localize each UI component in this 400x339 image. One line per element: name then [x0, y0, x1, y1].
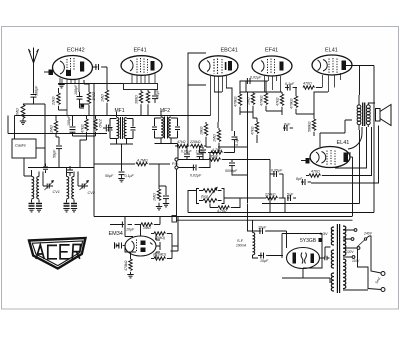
- resistor 35k top: [205, 158, 232, 161]
- svg-text:8μF: 8μF: [296, 177, 303, 181]
- svg-text:(log): (log): [201, 195, 208, 199]
- pins EBC41: [211, 76, 227, 122]
- wire cadre top: [14, 116, 16, 140]
- svg-text:0,02μF: 0,02μF: [250, 76, 262, 80]
- trimmer pad: [81, 104, 85, 108]
- wire el41 anode to ot: [346, 66, 374, 96]
- wire antenna down: [33, 63, 35, 94]
- wire af ties: [159, 185, 166, 187]
- wire ot down1: [359, 130, 361, 204]
- capacitor 10uF em34: [121, 222, 132, 228]
- wire det area: [178, 147, 203, 160]
- resistor 47k osc2: [85, 116, 88, 137]
- svg-text:47kΩ: 47kΩ: [177, 140, 186, 144]
- capacitor padder: [67, 166, 73, 176]
- svg-text:4,7MΩ: 4,7MΩ: [137, 159, 148, 163]
- svg-text:470Ω: 470Ω: [311, 170, 320, 174]
- resistor 220k right: [263, 196, 282, 199]
- wire left col bottom: [24, 168, 95, 177]
- capacitor 0,1uF grid el41: [285, 85, 297, 91]
- resistor 300 ohm: [139, 90, 142, 116]
- svg-text:1MΩ: 1MΩ: [101, 94, 105, 102]
- ground below MF1 cap: [118, 179, 124, 182]
- svg-text:50pF: 50pF: [53, 149, 57, 158]
- svg-text:50μF: 50μF: [105, 174, 114, 178]
- wire ech42 to cap: [93, 67, 108, 90]
- resistor 1M b: [251, 92, 254, 109]
- resistor 0,5M em34: [151, 257, 172, 260]
- trimmer CV2: [78, 181, 88, 190]
- resistor 1M avc: [95, 162, 171, 165]
- svg-text:1MΩ: 1MΩ: [213, 134, 217, 142]
- capacitor 0,1uF below MF1: [119, 144, 125, 178]
- tube 5Y3GB rectifier: [287, 248, 320, 269]
- svg-text:15μF: 15μF: [260, 259, 269, 263]
- capacitor 15uF psu: [258, 253, 270, 259]
- wire ebc41 pins extension: [188, 85, 235, 153]
- svg-text:EL41: EL41: [337, 140, 350, 146]
- terminal PU2: [175, 166, 178, 169]
- wire af column: [232, 160, 283, 213]
- ot wires: [359, 95, 375, 130]
- capacitor interstage between ECH42 EF41: [95, 64, 104, 70]
- svg-text:47kΩ: 47kΩ: [251, 126, 255, 135]
- wire ef41b cluster rails: [240, 81, 282, 118]
- capacitor MF1 left: [108, 119, 113, 139]
- antenna: [29, 48, 39, 64]
- svg-text:EF41: EF41: [134, 48, 147, 54]
- svg-text:5000pF: 5000pF: [225, 169, 238, 173]
- wire em34 tube top: [125, 225, 141, 237]
- wire rect heater: [320, 231, 334, 258]
- svg-text:0,05μF: 0,05μF: [181, 150, 192, 154]
- capacitor 5000pF: [229, 160, 235, 170]
- wire speaker nested corners: [311, 126, 379, 184]
- wire loop around EBC41: [188, 53, 206, 85]
- primary coil: [357, 105, 361, 109]
- wire bus PU down: [177, 153, 248, 217]
- svg-text:22kΩ: 22kΩ: [92, 91, 96, 101]
- svg-text:220kΩ: 220kΩ: [264, 193, 276, 197]
- coil L1a: [32, 177, 40, 199]
- wire mid bus: [8, 133, 107, 135]
- wire MF1 top/bottom: [110, 112, 133, 144]
- svg-text:220kΩ: 220kΩ: [189, 140, 201, 144]
- svg-text:470Ω: 470Ω: [303, 82, 312, 86]
- power transformer winding 2: [331, 250, 334, 268]
- coil MF1 left: [117, 118, 119, 139]
- core: [362, 103, 364, 127]
- core MF2: [164, 117, 166, 139]
- resistor 1k: [146, 90, 149, 116]
- svg-text:470kΩ: 470kΩ: [234, 96, 238, 107]
- svg-text:1MΩ: 1MΩ: [153, 193, 157, 201]
- pins EF41b: [265, 76, 281, 92]
- svg-text:10μF: 10μF: [258, 226, 267, 230]
- wire ef41b outputs: [218, 92, 248, 203]
- resistor 47k mid: [255, 118, 258, 143]
- power transformer secondary winding: [343, 226, 346, 256]
- svg-text:500kΩ: 500kΩ: [308, 121, 312, 132]
- capacitor 8uF cathode: [283, 125, 293, 131]
- resistor 4,7k av: [215, 206, 234, 209]
- resistor 27k osc2: [94, 116, 97, 137]
- svg-text:470kΩ: 470kΩ: [124, 260, 128, 271]
- wire el41b right: [350, 152, 353, 217]
- wire rectifier loop: [282, 234, 368, 291]
- svg-text:EBC41: EBC41: [221, 48, 238, 54]
- svg-text:47kΩ: 47kΩ: [81, 124, 85, 133]
- wire em34 bottom: [125, 246, 136, 257]
- svg-text:5Y3GB: 5Y3GB: [300, 238, 317, 244]
- svg-text:1MΩ: 1MΩ: [143, 226, 151, 230]
- wire heater bus: [270, 212, 374, 214]
- capacitor 130pF det: [197, 146, 203, 160]
- svg-text:P.U.: P.U.: [172, 162, 179, 166]
- svg-text:ECH42: ECH42: [67, 48, 85, 54]
- resistor 470k el41: [294, 93, 297, 114]
- svg-text:470kΩ: 470kΩ: [290, 98, 294, 109]
- wire ground bus: [94, 216, 352, 218]
- svg-text:120V: 120V: [346, 250, 354, 254]
- secondary coil: [366, 105, 370, 109]
- capacitor grid em34: [116, 243, 125, 249]
- tube EM34 magic eye: [125, 236, 156, 256]
- coil L2 bottom parts: [67, 168, 79, 203]
- coil L1 bottom parts: [32, 170, 44, 203]
- power transformer core: [336, 224, 338, 293]
- resistor 500k el41: [312, 115, 315, 136]
- wire coil top bus: [28, 167, 94, 169]
- capacitor on coil bus: [43, 164, 48, 174]
- wire x94 vertical: [93, 84, 95, 217]
- capacitor 10uF psu: [258, 228, 269, 234]
- wire taps to terminals: [358, 236, 382, 290]
- mains terminal 1: [381, 272, 385, 276]
- cathode network box: [124, 84, 158, 90]
- terminal PU1: [175, 158, 178, 161]
- wire cadre bottom: [23, 158, 25, 176]
- svg-text:100mA: 100mA: [236, 244, 246, 248]
- tube EL41: [312, 55, 352, 75]
- svg-text:240V: 240V: [363, 232, 373, 236]
- resistor 470 grid stopper: [303, 86, 322, 89]
- resistor 470k em34: [129, 256, 132, 274]
- grid cap EL41 lower: [301, 158, 310, 164]
- resistor 470k a: [238, 92, 241, 112]
- tube EF41 second: [252, 56, 292, 76]
- svg-text:110V: 110V: [352, 259, 360, 263]
- svg-text:Cadre: Cadre: [15, 143, 27, 148]
- resistor 47k d: [280, 92, 283, 112]
- wire cadre right: [36, 147, 45, 149]
- speaker: [376, 105, 392, 126]
- pins EF41: [132, 73, 155, 84]
- svg-text:4,7kΩ: 4,7kΩ: [212, 148, 222, 152]
- heater pair bus: [177, 213, 353, 221]
- resistor 4,7k: [208, 151, 227, 154]
- svg-text:0,1μF: 0,1μF: [235, 136, 239, 146]
- resistor 1M low: [54, 116, 57, 138]
- tube EF41: [121, 56, 162, 76]
- wire mf2 to det: [177, 144, 180, 148]
- taps: [343, 229, 367, 259]
- wire MF2 top/bottom: [155, 111, 178, 144]
- wire avc bus: [15, 115, 211, 117]
- capacitor 0,02uF pu: [192, 165, 202, 171]
- svg-text:100pF: 100pF: [74, 84, 78, 95]
- resistor under interstage: [105, 90, 108, 116]
- capacitor 0,02uF grid: [246, 78, 268, 84]
- svg-text:EF41: EF41: [265, 48, 278, 54]
- wire sf connections: [248, 204, 287, 259]
- cadre box: [12, 139, 36, 158]
- svg-text:1MΩ: 1MΩ: [50, 125, 54, 133]
- volume control loop: [197, 188, 225, 204]
- resistor 1M vertical af: [157, 164, 160, 206]
- power transformer secondary winding b: [343, 259, 346, 289]
- core MF1: [120, 117, 122, 139]
- svg-text:0,1μF: 0,1μF: [156, 89, 160, 99]
- wire osc mid: [59, 80, 90, 116]
- wire SF top: [252, 220, 254, 232]
- wire volume to grid: [188, 191, 285, 213]
- svg-text:22kΩ: 22kΩ: [52, 96, 56, 106]
- ground em34: [127, 275, 133, 278]
- wire em34 right bracket: [125, 217, 178, 259]
- wire vertical x45: [44, 104, 46, 168]
- detector resistor 220k: [190, 144, 206, 147]
- capacitor 0,1uF osc: [77, 91, 83, 104]
- svg-text:47kΩ: 47kΩ: [276, 97, 280, 106]
- svg-text:0,1μF: 0,1μF: [285, 82, 295, 86]
- wire osc left: [8, 116, 45, 168]
- wire junction: [23, 103, 45, 105]
- svg-text:35pF: 35pF: [210, 155, 219, 159]
- svg-text:10μF: 10μF: [126, 228, 135, 232]
- svg-text:8μF: 8μF: [284, 123, 291, 127]
- wire psu bottom: [160, 217, 178, 252]
- choke S.F: [253, 233, 255, 255]
- ground: [20, 121, 26, 124]
- resistor 2M em34: [151, 232, 172, 235]
- power transformer winding 3: [331, 273, 334, 291]
- capacitor 15pF: [200, 147, 206, 156]
- capacitor 0,1uF: [232, 131, 238, 144]
- capacitor 0,05uF right: [270, 171, 283, 177]
- resistor 470k c: [264, 92, 267, 111]
- resistor 470 lower: [306, 174, 330, 177]
- capacitor af: [163, 186, 169, 203]
- svg-text:EL41: EL41: [325, 48, 338, 54]
- svg-text:S.F: S.F: [237, 238, 244, 243]
- capacitor MF1 right: [131, 119, 136, 139]
- pins EL41: [323, 73, 341, 92]
- resistor 1M diag: [217, 128, 220, 147]
- coil MF2 left: [161, 117, 163, 138]
- mains terminal 2: [381, 288, 385, 292]
- svg-text:0,02μF: 0,02μF: [190, 174, 202, 178]
- trimmer CV1: [43, 181, 53, 190]
- svg-text:100pF: 100pF: [67, 115, 71, 126]
- capacitor 0,1uF: [152, 90, 158, 103]
- svg-text:CV1: CV1: [53, 190, 60, 194]
- wire osc bottom: [56, 136, 96, 168]
- capacitor right pair: [103, 125, 112, 132]
- svg-text:(0,5MΩ): (0,5MΩ): [153, 253, 166, 257]
- wire bias bus: [58, 83, 123, 85]
- svg-text:470kΩ: 470kΩ: [260, 95, 264, 106]
- svg-text:1MΩ: 1MΩ: [16, 108, 20, 116]
- wire b+ bus: [262, 203, 360, 205]
- svg-text:5μF: 5μF: [287, 193, 294, 197]
- svg-text:EM34: EM34: [109, 231, 123, 237]
- resistor 10k: [204, 122, 207, 140]
- svg-text:0,1μF: 0,1μF: [125, 174, 135, 178]
- pins ECH42: [60, 78, 79, 116]
- resistor 1M em34: [137, 223, 160, 226]
- svg-text:0,05μF: 0,05μF: [271, 169, 283, 173]
- capacitor 500pF: [31, 95, 37, 105]
- power transformer primary winding: [331, 227, 334, 245]
- capacitor 100pF dark: [70, 116, 76, 137]
- capacitor MF2 left: [152, 118, 157, 138]
- tube ECH42: [53, 56, 93, 80]
- svg-text:(2MΩ): (2MΩ): [155, 236, 165, 240]
- tube EL41 lower: [310, 147, 350, 168]
- svg-text:500pF: 500pF: [35, 85, 39, 96]
- capacitor MF2 right: [175, 118, 180, 138]
- capacitor el41b: [301, 179, 311, 185]
- resistor 1M ohm: [21, 105, 25, 122]
- capacitor heater balance: [322, 256, 330, 260]
- svg-text:MF2: MF2: [160, 108, 170, 114]
- detector resistor 47k: [175, 144, 188, 147]
- wire em34 feed: [110, 217, 137, 225]
- svg-text:130pF: 130pF: [196, 150, 207, 154]
- capacitor 50pF: [56, 137, 62, 153]
- capacitor 0,05uF det: [184, 146, 190, 160]
- PU ground jog: [172, 216, 177, 223]
- coil MF1 right: [124, 118, 126, 139]
- wire pu lines: [178, 160, 210, 168]
- resistor 22k osc: [57, 88, 60, 110]
- resistor 270 osc: [87, 88, 90, 108]
- grid cap of ECH42: [44, 70, 53, 76]
- coil MF2 right: [169, 117, 171, 138]
- wire ot down2: [373, 66, 375, 213]
- coil L2a: [67, 177, 75, 199]
- capacitor 5uF af out: [287, 195, 296, 201]
- svg-text:27kΩ: 27kΩ: [98, 118, 102, 128]
- wire el41 lower top loop: [296, 88, 362, 150]
- svg-text:300Ω: 300Ω: [135, 95, 139, 104]
- ground under ECH42: [58, 85, 64, 88]
- svg-text:CV2: CV2: [88, 191, 96, 195]
- svg-text:10kΩ: 10kΩ: [200, 126, 204, 135]
- tube EBC41: [199, 56, 238, 76]
